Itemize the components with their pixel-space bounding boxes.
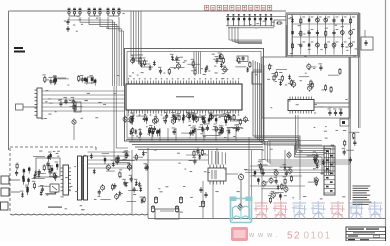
transistor Q6 <box>238 205 242 209</box>
flyback vertical rails <box>248 137 250 219</box>
audio section components <box>269 63 341 93</box>
power wires <box>113 86 115 160</box>
main IC U1 LA76810 <box>126 78 242 115</box>
vertical amp wires <box>250 165 320 167</box>
notes text column <box>353 186 372 205</box>
wires bus into T2 <box>209 150 226 165</box>
components top-right of shield box <box>204 53 251 74</box>
board right bus pair outer <box>358 13 360 128</box>
vertical amp extra parts <box>254 169 288 204</box>
bus below shield box <box>126 140 263 150</box>
switching transformer T1 <box>78 156 82 200</box>
sheet right border <box>385 0 387 241</box>
component row below U1 (lower) <box>129 124 242 137</box>
main board bottom border <box>148 218 386 220</box>
electrolytic C major 1 <box>152 205 154 207</box>
components below header <box>58 97 82 112</box>
flyback wires <box>186 154 208 156</box>
watermark text 家电维修资料网 <box>254 201 383 219</box>
CRT connector strip <box>324 146 335 195</box>
diode row D1-D9 top right <box>226 14 274 28</box>
top connector group J2 <box>88 8 102 16</box>
main board wavy bottom edge <box>10 213 148 216</box>
PSU sub-box 1 <box>36 158 60 177</box>
AC input wires <box>9 179 20 181</box>
main board top border <box>9 10 287 12</box>
audio IC U2 <box>288 97 314 114</box>
watermark logo red banner <box>231 227 248 241</box>
pin header CN2 <box>37 88 42 118</box>
svg-text:52: 52 <box>287 231 301 242</box>
remote sensor box <box>16 104 24 110</box>
flyback caps <box>199 187 207 208</box>
small box in left row <box>88 77 94 83</box>
main board left border <box>8 11 10 150</box>
shield box outer <box>125 49 264 142</box>
switching regulator IC U4 <box>63 165 69 195</box>
top connector group J3 <box>107 8 121 16</box>
CRT area components <box>307 153 325 186</box>
flyback driver transformer T2 <box>208 168 226 181</box>
tiny value labels scatter <box>39 13 358 212</box>
wire diode row to right box <box>273 20 275 27</box>
component row below U1 (upper) <box>123 112 249 126</box>
wire bus from top connectors <box>69 17 124 31</box>
wire bus to right edge <box>265 141 350 164</box>
secondary output rails <box>88 152 131 168</box>
board right bus pair inner <box>348 57 350 219</box>
HOT transistor Q5 <box>238 174 243 179</box>
wire bus staircase to CRT area <box>253 60 333 175</box>
transformer T2 inner <box>211 170 213 179</box>
third wire bundle inside shield <box>194 52 201 75</box>
sub-IC X1 area <box>252 72 262 84</box>
transistor Q3 <box>72 120 76 124</box>
small box right of tuner <box>361 37 373 50</box>
shield box inner <box>127 52 261 139</box>
IF/tuner box outer <box>286 13 359 57</box>
component row left of shield box <box>42 74 96 85</box>
AC input connector <box>1 176 9 184</box>
second wire bundle <box>131 11 153 67</box>
components above U1 <box>130 54 200 76</box>
IF/tuner box components <box>291 16 355 55</box>
optocoupler U3 <box>50 184 59 192</box>
watermark logo (teal TV/book) <box>230 197 253 223</box>
IF/tuner box inner <box>288 15 358 56</box>
bottom caps pair <box>154 196 182 204</box>
bridge rectifier cluster <box>15 152 58 198</box>
audio section box <box>262 57 350 118</box>
svg-text:0101: 0101 <box>304 231 332 242</box>
audio output wires <box>314 102 349 104</box>
top connector group J1 <box>68 8 82 16</box>
transistor Q8 <box>287 153 291 157</box>
degauss box <box>155 209 179 219</box>
wires into IF box <box>286 25 288 57</box>
electrolytic C major 2 <box>176 205 178 207</box>
power supply dashed border <box>10 147 96 213</box>
secondary components <box>124 149 148 203</box>
box A near CRT <box>340 119 349 126</box>
title text 彩色电视机电路电原理图 (red) <box>205 5 272 10</box>
svg-text:www.: www. <box>248 232 282 239</box>
bus pair to CRT strip <box>245 169 330 171</box>
vertical amp rails <box>261 150 263 205</box>
vertical amp components <box>258 161 293 198</box>
wires diode row down to shield box <box>229 27 262 44</box>
small box Q area <box>74 102 81 112</box>
vertical wire bundle to U1 <box>113 20 124 86</box>
main board label MAIN BOARD <box>14 47 23 49</box>
flyback area components <box>188 147 203 165</box>
wires header to shield box <box>42 91 125 111</box>
title block table <box>346 227 386 241</box>
right strip components <box>342 132 360 163</box>
top-left bias components <box>66 19 69 32</box>
primary side components <box>90 151 135 200</box>
PSU model label <box>48 207 62 208</box>
wires dropping from U1 rows <box>132 128 236 141</box>
